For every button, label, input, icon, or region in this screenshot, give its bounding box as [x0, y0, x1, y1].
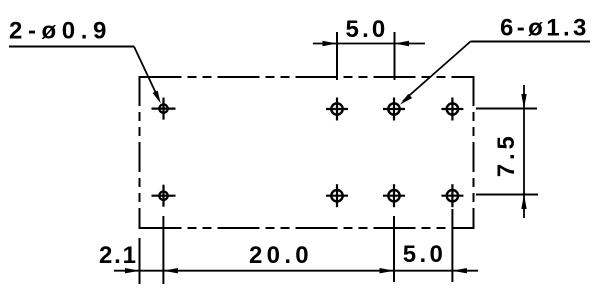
dimension 7.5 right: extension line bottom	[476, 194, 538, 196]
relay body outline left edge (phantom line)	[139, 76, 141, 229]
relay body outline top edge (phantom line)	[140, 76, 474, 78]
label 6-dia1.3 leader wire	[403, 42, 471, 102]
dimension 5.0 bottom: extension line (hole col 4)	[451, 209, 453, 282]
dimension 20.0: left arrowhead (pointing left)	[163, 268, 178, 273]
dimension 2.1: left arrowhead (outside, pointing right)	[125, 268, 140, 273]
dimension 2.1/20.0 shared extension line (hole col 1)	[162, 216, 164, 284]
label 6-dia1.3 text	[500, 15, 590, 42]
svg-text:20.0: 20.0	[249, 242, 313, 269]
dimension 7.5 right: bottom arrowhead	[521, 195, 526, 210]
svg-text:2.1: 2.1	[99, 242, 138, 269]
dimension 7.5 right: value text (rotated)	[493, 132, 520, 177]
dimension 2.1: value text	[99, 242, 138, 269]
label 2-dia0.9 leader wire	[134, 47, 158, 98]
relay body outline bottom edge (phantom line)	[140, 227, 474, 229]
dimension 20.0/5.0 shared extension line (hole col 3)	[393, 216, 395, 282]
svg-text:6-ø1.3: 6-ø1.3	[500, 15, 590, 42]
dimension 2.1 bottom: extension line (body left edge)	[139, 238, 141, 284]
dimension 5.0 top: value text	[346, 16, 389, 43]
hole B2 (1.3mm, top row col 3)	[383, 98, 405, 121]
dimension 20.0: value text	[249, 242, 313, 269]
dimension 7.5 right: extension line top	[476, 108, 537, 110]
dimension 5.0 top: extension line left	[336, 32, 338, 80]
dimension 5.0 top: left arrowhead	[323, 41, 338, 46]
svg-text:5.0: 5.0	[346, 16, 389, 43]
svg-text:2-ø0.9: 2-ø0.9	[9, 18, 112, 45]
label 2-dia0.9 leader arrowhead	[153, 91, 161, 104]
label 6-dia1.3 leader arrowhead	[400, 94, 412, 105]
dimension 5.0 top: extension line right	[394, 32, 396, 80]
svg-text:5.0: 5.0	[403, 241, 447, 268]
hole B4 (1.3mm, bottom row col 2)	[326, 184, 348, 207]
hole B6 (1.3mm, bottom row col 4)	[441, 184, 463, 207]
hole A2 (0.9mm, bottom-left)	[152, 185, 176, 207]
svg-text:7.5: 7.5	[493, 132, 520, 177]
hole A1 (0.9mm, top-left)	[152, 98, 176, 120]
label 2-dia0.9 text	[9, 18, 112, 45]
dimension 5.0 bottom: right arrowhead (outside, pointing left)	[452, 268, 467, 273]
hole B3 (1.3mm, top row col 4)	[441, 98, 463, 121]
dimension 20.0: right arrowhead (pointing right)	[380, 268, 395, 273]
dimension 7.5 right: dimension line	[523, 85, 525, 218]
label 6-dia1.3 underline	[471, 41, 591, 43]
dimension 5.0 bottom: value text	[403, 241, 447, 268]
hole B5 (1.3mm, bottom row col 3)	[383, 184, 405, 207]
dimension 7.5 right: top arrowhead	[521, 94, 526, 109]
hole B1 (1.3mm, top row col 2)	[326, 98, 348, 121]
dimension 5.0 top: right arrowhead	[395, 41, 410, 46]
label 2-dia0.9 underline	[9, 46, 134, 48]
relay body outline right edge (phantom line)	[473, 76, 475, 229]
dimension 5.0 top: dimension line	[313, 43, 425, 45]
bottom dimension line (2.1 / 20.0 / 5.0)	[114, 270, 478, 272]
